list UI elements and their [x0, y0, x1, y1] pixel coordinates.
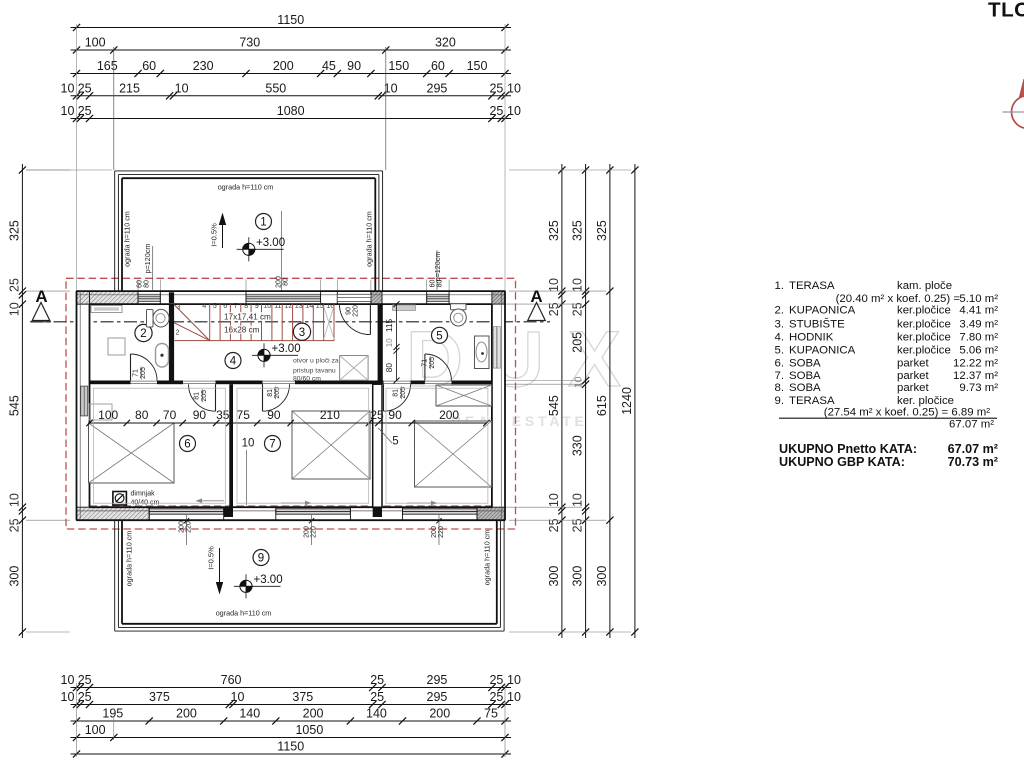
svg-text:SOBA: SOBA	[789, 370, 821, 382]
svg-text:HODNIK: HODNIK	[789, 332, 834, 344]
svg-text:9.: 9.	[775, 395, 785, 407]
svg-text:4: 4	[230, 356, 237, 368]
svg-text:3: 3	[299, 327, 305, 339]
svg-text:ograda h=110 cm: ograda h=110 cm	[216, 609, 272, 618]
svg-text:(20.40 m² x koef. 0.25) =: (20.40 m² x koef. 0.25) =	[836, 293, 961, 305]
svg-text:71: 71	[132, 369, 139, 377]
svg-text:115: 115	[384, 319, 394, 333]
svg-text:1150: 1150	[277, 13, 304, 27]
svg-text:200: 200	[273, 59, 294, 73]
svg-text:25: 25	[7, 278, 21, 292]
svg-text:25: 25	[489, 673, 503, 687]
svg-text:9: 9	[255, 301, 259, 310]
svg-text:90: 90	[193, 408, 207, 422]
svg-text:7: 7	[269, 439, 275, 451]
svg-text:KUPAONICA: KUPAONICA	[789, 305, 856, 317]
svg-text:1: 1	[260, 217, 266, 229]
svg-text:140: 140	[366, 707, 387, 721]
svg-text:UKUPNO Pnetto KATA:: UKUPNO Pnetto KATA:	[779, 442, 917, 456]
svg-text:60: 60	[137, 280, 144, 288]
svg-text:ker.pločice: ker.pločice	[897, 305, 951, 317]
svg-text:140: 140	[239, 707, 260, 721]
svg-text:300: 300	[571, 566, 585, 587]
svg-text:10: 10	[507, 690, 521, 704]
svg-text:75: 75	[484, 707, 498, 721]
svg-text:10: 10	[61, 690, 75, 704]
svg-text:3.: 3.	[775, 319, 785, 331]
svg-text:25: 25	[78, 104, 92, 118]
svg-text:25: 25	[370, 690, 384, 704]
svg-text:35: 35	[216, 408, 230, 422]
svg-text:p=120cm: p=120cm	[433, 252, 442, 282]
svg-text:ker.pločice: ker.pločice	[897, 345, 951, 357]
svg-text:ograda h=110 cm: ograda h=110 cm	[483, 530, 492, 586]
svg-text:100: 100	[85, 723, 106, 737]
svg-text:7.80 m²: 7.80 m²	[959, 332, 998, 344]
svg-text:ker.pločice: ker.pločice	[897, 319, 951, 331]
svg-text:10: 10	[175, 81, 189, 95]
svg-text:ograda h=110 cm: ograda h=110 cm	[123, 211, 132, 267]
svg-text:81: 81	[267, 389, 274, 397]
svg-text:300: 300	[595, 566, 609, 587]
svg-text:200: 200	[276, 276, 283, 288]
svg-text:10: 10	[507, 81, 521, 95]
svg-text:1080: 1080	[277, 104, 305, 118]
svg-text:12.22 m²: 12.22 m²	[953, 357, 998, 369]
svg-text:dimnjak: dimnjak	[131, 491, 156, 498]
svg-text:25: 25	[78, 673, 92, 687]
svg-text:10: 10	[571, 278, 585, 292]
svg-text:3.49 m²: 3.49 m²	[959, 319, 998, 331]
svg-text:90: 90	[388, 408, 402, 422]
svg-text:4.: 4.	[775, 332, 785, 344]
svg-text:10: 10	[547, 493, 561, 507]
svg-text:90: 90	[346, 307, 353, 315]
svg-text:10: 10	[507, 104, 521, 118]
svg-text:100: 100	[85, 36, 106, 50]
svg-text:1150: 1150	[277, 740, 304, 754]
svg-text:25: 25	[489, 81, 503, 95]
svg-text:80: 80	[384, 363, 394, 373]
svg-text:10: 10	[263, 301, 271, 310]
svg-text:12: 12	[284, 301, 292, 310]
svg-text:7: 7	[234, 301, 238, 310]
svg-text:9: 9	[258, 553, 264, 565]
svg-text:545: 545	[7, 395, 21, 416]
svg-text:STUBIŠTE: STUBIŠTE	[789, 318, 845, 331]
svg-text:2.: 2.	[775, 305, 785, 317]
svg-text:KUPAONICA: KUPAONICA	[789, 345, 856, 357]
svg-text:205: 205	[140, 367, 147, 379]
svg-text:375: 375	[149, 690, 170, 704]
svg-text:TLOCRT: TLOCRT	[988, 0, 1024, 21]
svg-text:295: 295	[427, 81, 448, 95]
svg-text:parket: parket	[897, 382, 929, 394]
svg-text:330: 330	[571, 435, 585, 456]
svg-text:215: 215	[119, 81, 140, 95]
svg-text:10: 10	[61, 673, 75, 687]
svg-text:17x17,41 cm: 17x17,41 cm	[224, 313, 271, 322]
svg-text:100: 100	[98, 408, 118, 422]
svg-text:200: 200	[439, 408, 459, 422]
svg-text:2: 2	[140, 328, 146, 340]
svg-text:ker. pločice: ker. pločice	[897, 395, 954, 407]
svg-text:25: 25	[78, 81, 92, 95]
svg-text:300: 300	[7, 566, 21, 587]
svg-text:5.10 m²: 5.10 m²	[959, 293, 998, 305]
svg-text:8: 8	[244, 301, 248, 310]
svg-text:10: 10	[7, 493, 21, 507]
svg-text:730: 730	[239, 36, 260, 50]
svg-text:SOBA: SOBA	[789, 357, 821, 369]
svg-text:75: 75	[237, 408, 251, 422]
svg-text:10: 10	[573, 376, 585, 388]
svg-text:ograda h=110 cm: ograda h=110 cm	[124, 531, 133, 587]
svg-text:TERASA: TERASA	[789, 395, 835, 407]
svg-text:7.: 7.	[775, 370, 785, 382]
svg-text:16x28 cm: 16x28 cm	[224, 326, 260, 335]
svg-text:10: 10	[61, 104, 75, 118]
svg-text:9.73 m²: 9.73 m²	[959, 382, 998, 394]
svg-text:10: 10	[242, 438, 255, 450]
svg-text:6: 6	[223, 301, 227, 310]
svg-text:p=120cm: p=120cm	[143, 244, 152, 274]
svg-text:15: 15	[316, 301, 324, 310]
svg-text:320: 320	[435, 36, 456, 50]
svg-text:3: 3	[177, 302, 181, 311]
svg-text:615: 615	[595, 395, 609, 416]
svg-text:760: 760	[221, 673, 242, 687]
svg-text:205: 205	[201, 390, 208, 402]
svg-text:10: 10	[507, 673, 521, 687]
svg-text:25: 25	[370, 408, 384, 422]
svg-text:81: 81	[393, 389, 400, 397]
svg-text:14: 14	[305, 301, 313, 310]
svg-text:295: 295	[427, 673, 448, 687]
svg-text:TERASA: TERASA	[789, 280, 835, 292]
svg-text:165: 165	[97, 59, 118, 73]
svg-text:325: 325	[571, 220, 585, 241]
svg-text:10: 10	[571, 493, 585, 507]
svg-text:+3.00: +3.00	[272, 343, 301, 355]
svg-text:12.37 m²: 12.37 m²	[953, 370, 998, 382]
svg-text:205: 205	[274, 387, 281, 399]
svg-text:25: 25	[78, 690, 92, 704]
svg-text:325: 325	[595, 220, 609, 241]
svg-text:200: 200	[431, 526, 438, 538]
svg-text:2: 2	[176, 328, 180, 337]
svg-text:325: 325	[547, 220, 561, 241]
svg-text:10: 10	[231, 690, 245, 704]
svg-text:8.: 8.	[775, 382, 785, 394]
svg-text:80: 80	[437, 280, 444, 288]
svg-text:550: 550	[265, 81, 286, 95]
svg-text:60: 60	[142, 59, 156, 73]
svg-text:25: 25	[7, 518, 21, 532]
svg-text:205: 205	[400, 387, 407, 399]
svg-text:pristup tavanu: pristup tavanu	[293, 368, 336, 375]
svg-text:5.: 5.	[775, 345, 785, 357]
svg-text:195: 195	[102, 707, 123, 721]
svg-text:otvor u ploči za: otvor u ploči za	[293, 358, 339, 365]
svg-text:I=0.5%: I=0.5%	[210, 223, 219, 247]
svg-text:200: 200	[176, 707, 197, 721]
svg-text:1.: 1.	[775, 280, 785, 292]
svg-text:60: 60	[430, 280, 437, 288]
svg-text:70.73 m²: 70.73 m²	[948, 455, 998, 469]
svg-text:325: 325	[7, 220, 21, 241]
svg-text:10: 10	[61, 81, 75, 95]
svg-text:81: 81	[194, 392, 201, 400]
svg-text:210: 210	[320, 408, 340, 422]
svg-text:10: 10	[547, 278, 561, 292]
svg-text:SOBA: SOBA	[789, 382, 821, 394]
svg-text:(27.54 m² x koef. 0.25) = 6.89: (27.54 m² x koef. 0.25) = 6.89 m²	[824, 407, 990, 419]
svg-text:150: 150	[388, 59, 409, 73]
svg-text:ograda h=110 cm: ograda h=110 cm	[218, 183, 274, 192]
svg-text:4: 4	[202, 301, 206, 310]
svg-text:10: 10	[7, 302, 21, 316]
svg-text:80: 80	[283, 278, 290, 286]
svg-text:parket: parket	[897, 357, 929, 369]
svg-text:5.06 m²: 5.06 m²	[959, 345, 998, 357]
svg-text:ograda h=110 cm: ograda h=110 cm	[365, 211, 374, 267]
svg-text:ker.pločice: ker.pločice	[897, 332, 951, 344]
svg-text:80/60 cm: 80/60 cm	[293, 376, 321, 383]
svg-text:200: 200	[303, 707, 324, 721]
svg-text:90: 90	[267, 408, 281, 422]
svg-text:UKUPNO GBP KATA:: UKUPNO GBP KATA:	[779, 455, 905, 469]
svg-text:+3.00: +3.00	[254, 574, 283, 586]
svg-text:11: 11	[274, 301, 281, 310]
svg-text:parket: parket	[897, 370, 929, 382]
svg-text:300: 300	[547, 566, 561, 587]
svg-text:10: 10	[385, 338, 394, 347]
svg-text:200: 200	[429, 707, 450, 721]
svg-text:200: 200	[304, 526, 311, 538]
svg-text:5: 5	[213, 301, 217, 310]
svg-text:25: 25	[370, 673, 384, 687]
svg-text:205: 205	[571, 332, 585, 353]
svg-text:1240: 1240	[620, 387, 634, 415]
svg-text:67.07 m²: 67.07 m²	[949, 418, 994, 430]
svg-text:25: 25	[489, 104, 503, 118]
svg-text:13: 13	[295, 301, 303, 310]
svg-text:80: 80	[135, 408, 149, 422]
svg-text:6: 6	[184, 439, 190, 451]
svg-text:+3.00: +3.00	[256, 237, 285, 249]
svg-text:90: 90	[347, 59, 361, 73]
svg-text:220: 220	[353, 305, 360, 317]
svg-text:45: 45	[322, 59, 336, 73]
svg-text:230: 230	[193, 59, 214, 73]
svg-text:4.41 m²: 4.41 m²	[959, 305, 998, 317]
svg-text:375: 375	[292, 690, 313, 704]
svg-text:I=0.5%: I=0.5%	[207, 546, 216, 570]
svg-text:205: 205	[429, 357, 436, 369]
svg-text:25: 25	[489, 690, 503, 704]
svg-text:67.07 m²: 67.07 m²	[948, 442, 998, 456]
svg-text:295: 295	[427, 690, 448, 704]
svg-text:60: 60	[431, 59, 445, 73]
svg-text:70: 70	[163, 408, 177, 422]
svg-text:kam. ploče: kam. ploče	[897, 280, 952, 292]
svg-text:80: 80	[144, 280, 151, 288]
svg-text:1050: 1050	[295, 723, 323, 737]
svg-text:150: 150	[467, 59, 488, 73]
svg-text:71: 71	[422, 359, 429, 367]
svg-text:6.: 6.	[775, 357, 785, 369]
svg-text:545: 545	[547, 395, 561, 416]
svg-text:5: 5	[392, 436, 398, 448]
svg-text:5: 5	[436, 331, 442, 343]
